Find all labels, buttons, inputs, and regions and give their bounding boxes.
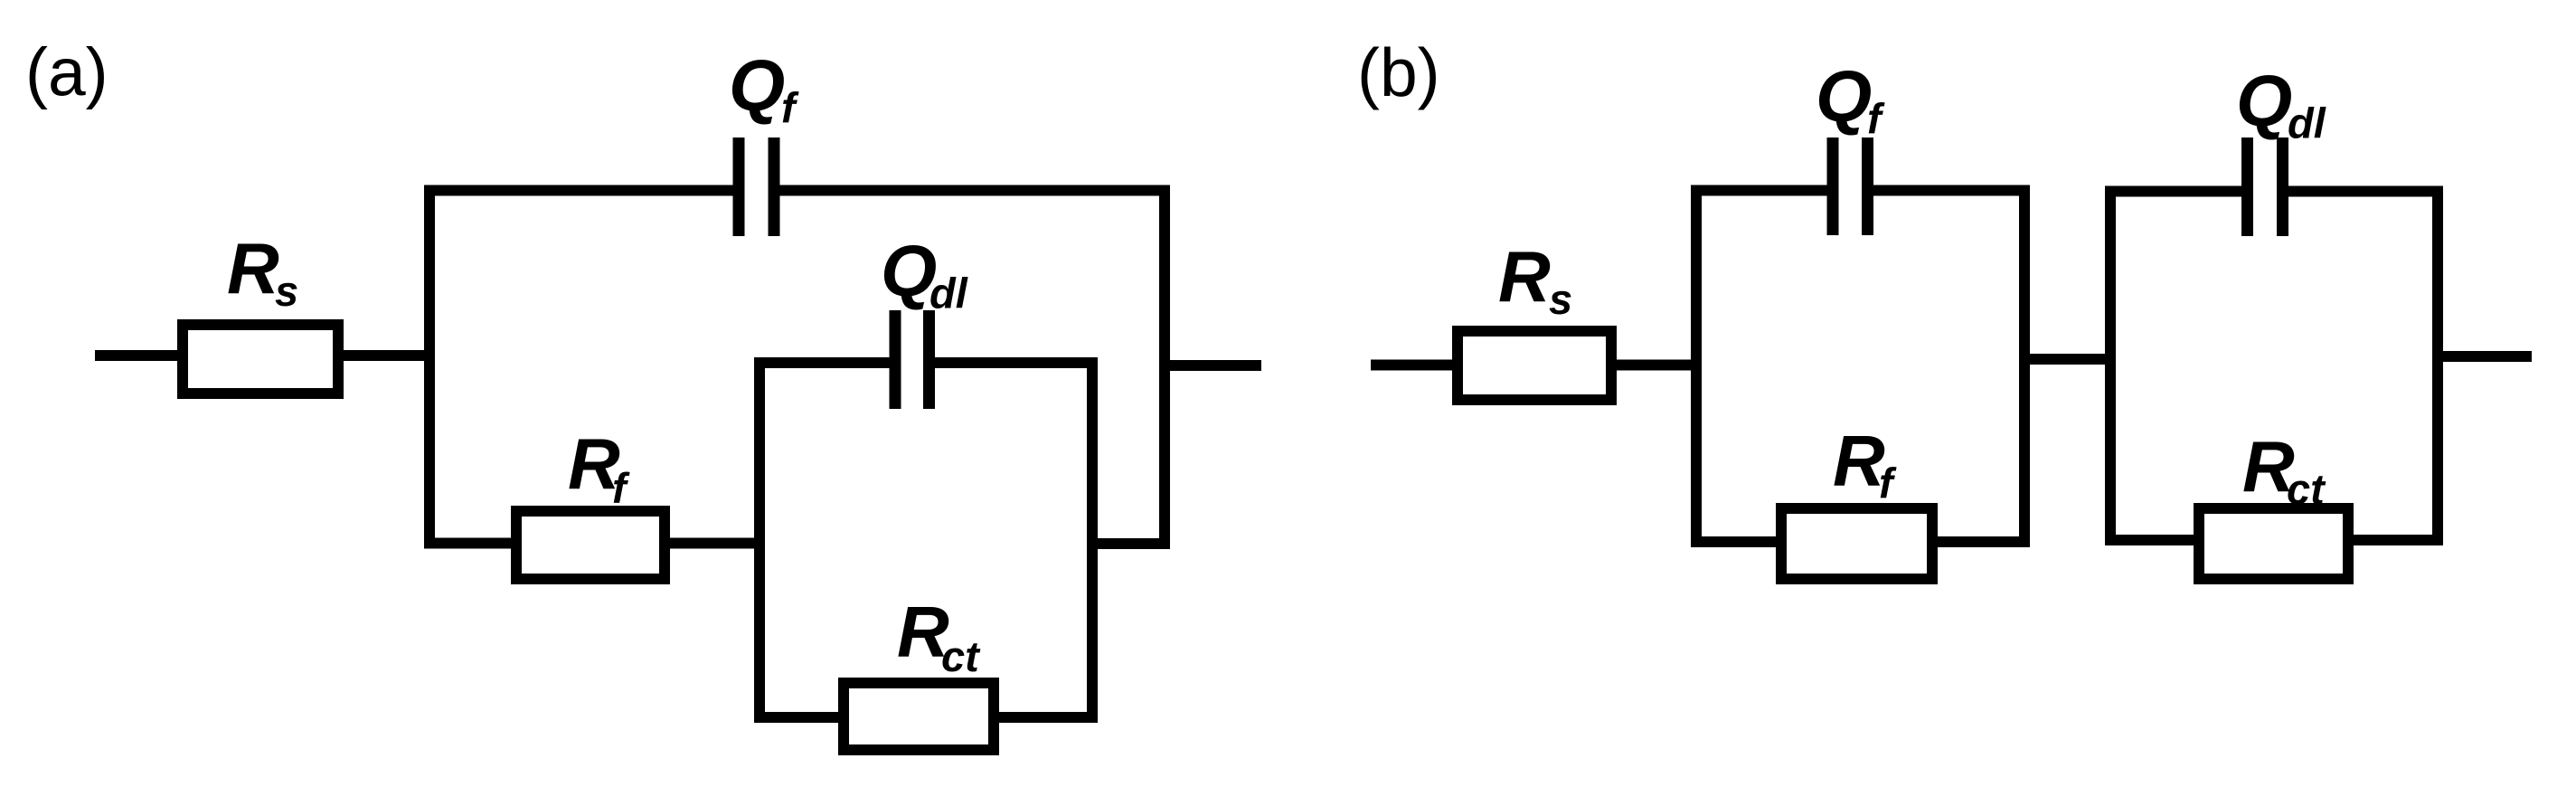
svg-text:Q: Q	[2236, 61, 2292, 141]
svg-text:(a): (a)	[25, 34, 109, 110]
svg-text:s: s	[1549, 275, 1572, 323]
svg-text:dl: dl	[929, 270, 968, 318]
svg-text:R: R	[1498, 237, 1551, 318]
svg-text:(b): (b)	[1357, 34, 1440, 110]
svg-text:ct: ct	[941, 632, 981, 680]
svg-text:Q: Q	[1816, 56, 1872, 137]
svg-text:Q: Q	[729, 45, 785, 126]
svg-text:ct: ct	[2287, 465, 2326, 513]
svg-text:R: R	[227, 229, 279, 309]
svg-text:s: s	[275, 267, 298, 315]
svg-text:R: R	[1833, 421, 1885, 501]
svg-text:dl: dl	[2288, 100, 2326, 147]
svg-text:Q: Q	[881, 231, 937, 311]
